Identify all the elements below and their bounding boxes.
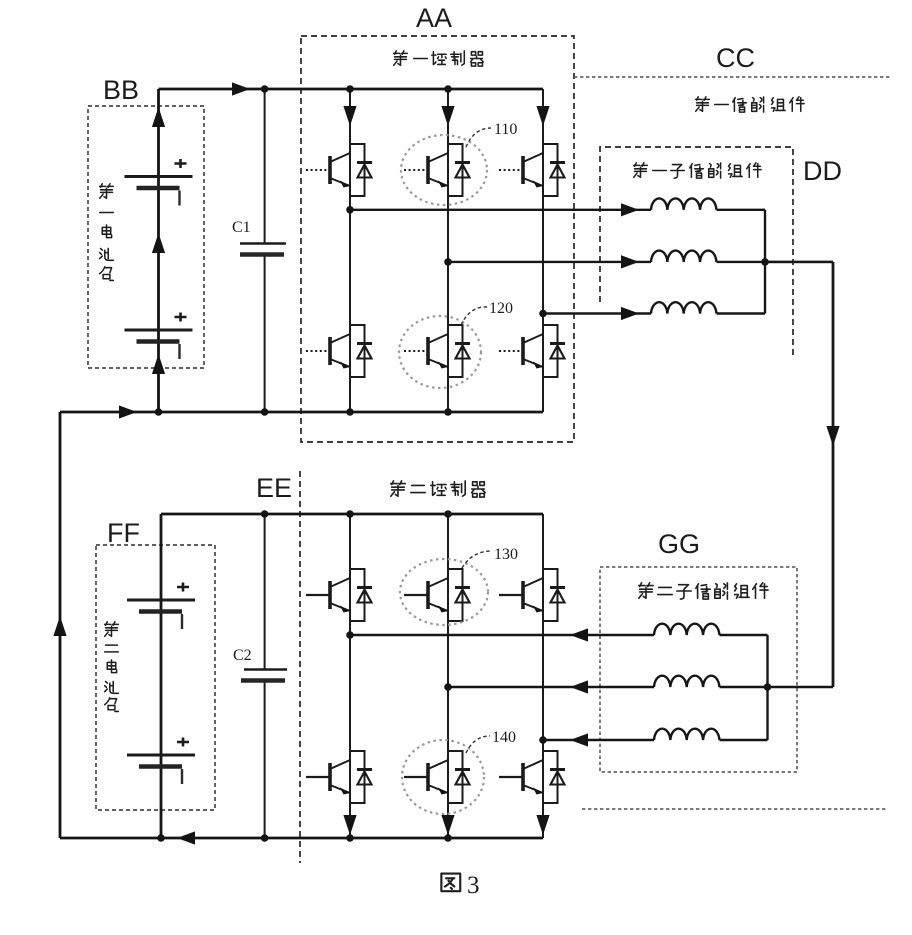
node: second bottom bus junctions	[157, 834, 452, 842]
label 第二控制器 (second controller)	[391, 481, 485, 497]
leader for label 140	[466, 736, 490, 753]
label FF	[107, 518, 140, 548]
IGBT Q9 with freewheel diode (top leg3)	[499, 569, 565, 621]
label 第一储能组件 (first energy storage assembly)	[696, 97, 804, 112]
label 140	[492, 729, 516, 746]
inductor L1	[651, 198, 716, 209]
wire: right vertical interlink	[832, 262, 835, 687]
svg-text:120: 120	[489, 300, 513, 317]
flow arrow up on left riser	[53, 616, 66, 636]
svg-text:110: 110	[494, 121, 517, 138]
svg-text:140: 140	[492, 729, 516, 746]
inductor L3	[651, 302, 716, 313]
svg-text:CC: CC	[716, 43, 755, 73]
label 130	[494, 546, 518, 563]
label CC	[716, 43, 755, 73]
node: star point first bank	[761, 258, 769, 266]
enclosure BB (first battery pack dashed box)	[88, 106, 204, 368]
IGBT Q11 with freewheel diode (bottom leg2, item 140)	[404, 751, 470, 803]
highlight ellipse for item 140	[402, 740, 484, 814]
flow arrow up on battery B1 middle	[152, 233, 165, 253]
node: star point second bank	[764, 683, 772, 691]
flow arrow down on inverter2 leg3	[536, 815, 549, 835]
IGBT Q1 with freewheel diode (top leg1)	[306, 144, 372, 196]
wire: inverter2 leg 3	[542, 514, 544, 838]
flow arrow left on second bottom bus	[177, 831, 195, 844]
wire: link from star point to right riser	[765, 261, 833, 263]
label 110	[494, 121, 517, 138]
label 第二子储能组件 (second sub energy storage assembly)	[639, 583, 768, 599]
enclosure FF (second battery pack dashed box)	[96, 545, 215, 810]
node: phase taps inverter1	[346, 206, 547, 317]
flow arrow up on battery B1 bottom	[152, 354, 165, 374]
flow arrow down on leg 2	[441, 106, 454, 126]
battery B1 cell 1	[125, 159, 193, 206]
enclosure GG (second sub storage dashed box)	[600, 567, 797, 772]
label DD	[803, 156, 842, 186]
enclosure CC top dashed line	[574, 76, 890, 78]
label 第一子储能组件 (first sub energy storage assembly)	[634, 163, 761, 178]
wire: inverter2 leg 1	[349, 514, 351, 838]
wire: first DC+ top bus	[159, 88, 544, 91]
leader for label 130	[462, 551, 492, 568]
label EE	[256, 473, 292, 503]
node: second top bus junctions	[261, 510, 452, 518]
IGBT Q8 with freewheel diode (top leg2, item 130)	[404, 569, 470, 621]
enclosure AA (first controller dashed box)	[301, 36, 574, 442]
IGBT Q7 with freewheel diode (top leg1)	[306, 569, 372, 621]
flow arrow left on phase A of inverter2	[570, 628, 588, 641]
wire: star tie of second inductor bank	[766, 635, 768, 740]
label GG	[658, 529, 700, 559]
IGBT Q5 with freewheel diode (bottom leg2, item 120)	[404, 325, 470, 377]
capacitor C1 leads	[264, 89, 266, 412]
wire: phase C line of inverter2	[543, 739, 768, 741]
label 图 3 (Figure 3 caption)	[441, 872, 479, 899]
svg-text:130: 130	[494, 546, 518, 563]
flow arrow right on phase B	[621, 255, 639, 268]
flow arrow right on phase A	[621, 203, 639, 216]
flow arrow down on inverter2 leg2	[441, 815, 454, 835]
flow arrow down on inverter2 leg1	[343, 815, 356, 835]
label 第一控制器 (first controller)	[394, 51, 484, 66]
inductor L4	[654, 624, 719, 635]
battery B1 cell 2	[125, 313, 193, 360]
label AA	[416, 3, 452, 33]
flow arrow down on leg 1	[343, 106, 356, 126]
svg-text:GG: GG	[658, 529, 700, 559]
wire: phase C line of inverter1	[543, 312, 765, 314]
battery B2 cell 1	[127, 583, 195, 630]
wire: phase A line of inverter2	[350, 634, 768, 636]
battery B2 cell 2	[127, 738, 195, 785]
enclosure DD (first sub storage dashed box, partial)	[600, 147, 793, 355]
svg-text:AA: AA	[416, 3, 452, 33]
label 第二电池包 (second battery pack, vertical)	[105, 622, 119, 712]
flow arrow up on battery B1 top	[152, 107, 165, 127]
IGBT Q10 with freewheel diode (bottom leg1)	[306, 751, 372, 803]
wire: first battery branch	[157, 89, 160, 412]
IGBT Q2 with freewheel diode (top leg2, item 110)	[404, 144, 470, 196]
flow arrow right on phase C	[621, 307, 639, 320]
wire: second battery branch	[160, 514, 163, 838]
IGBT Q12 with freewheel diode (bottom leg3)	[499, 751, 565, 803]
svg-text:DD: DD	[803, 156, 842, 186]
leader for label 110	[466, 128, 491, 147]
wire: second DC+ top bus	[161, 513, 543, 516]
leader for label 120	[461, 307, 487, 325]
label BB	[103, 75, 139, 105]
wire: phase A line of inverter1	[350, 209, 765, 211]
wire: left return riser	[59, 412, 62, 838]
svg-text:EE: EE	[256, 473, 292, 503]
label 第一电池包 (first battery pack, vertical)	[100, 184, 114, 281]
flow arrow left on phase C of inverter2	[570, 733, 588, 746]
svg-text:C2: C2	[233, 647, 252, 664]
wire: star tie of first inductor bank	[764, 210, 766, 314]
inductor L5	[654, 676, 719, 687]
wire: phase B line of inverter1	[448, 261, 833, 263]
highlight ellipse for item 130	[400, 559, 488, 625]
flow arrow right on top bus	[232, 82, 250, 95]
wire: phase B line of inverter2	[448, 686, 833, 688]
flow arrow down on interlink	[826, 426, 839, 446]
IGBT Q6 with freewheel diode (bottom leg3)	[499, 325, 565, 377]
highlight ellipse for item 110	[401, 135, 487, 205]
label C2	[233, 647, 252, 664]
flow arrow left on phase B of inverter2	[570, 680, 588, 693]
highlight ellipse for item 120	[399, 316, 481, 388]
enclosure CC bottom dashed line	[582, 808, 886, 810]
flow arrow right on bottom bus	[119, 405, 137, 418]
capacitor C2 plates	[241, 670, 287, 681]
svg-text:FF: FF	[107, 518, 140, 548]
IGBT Q3 with freewheel diode (top leg3)	[499, 144, 565, 196]
wire: inverter1 leg 3	[542, 89, 544, 412]
node: phase taps inverter2	[346, 631, 547, 744]
capacitor C2 leads	[264, 514, 266, 838]
svg-text:C1: C1	[232, 219, 251, 236]
enclosure EE dashed separator line	[299, 471, 301, 863]
wire: inverter2 leg 2	[447, 514, 449, 838]
wire: inverter1 leg 1	[349, 89, 351, 412]
flow arrow down on leg 3	[536, 106, 549, 126]
wire: second DC- bottom bus	[60, 837, 543, 840]
wire: inverter1 leg 2	[447, 89, 449, 412]
svg-text:3: 3	[467, 872, 480, 899]
node: top bus junctions	[261, 85, 452, 93]
inductor L2	[651, 251, 716, 262]
node: bottom bus junctions	[155, 408, 452, 416]
label 120	[489, 300, 513, 317]
IGBT Q4 with freewheel diode (bottom leg1)	[306, 325, 372, 377]
label C1	[232, 219, 251, 236]
capacitor C1 plates	[240, 244, 286, 255]
wire: first DC- bottom bus	[60, 411, 543, 414]
inductor L6	[654, 729, 719, 740]
svg-text:BB: BB	[103, 75, 139, 105]
